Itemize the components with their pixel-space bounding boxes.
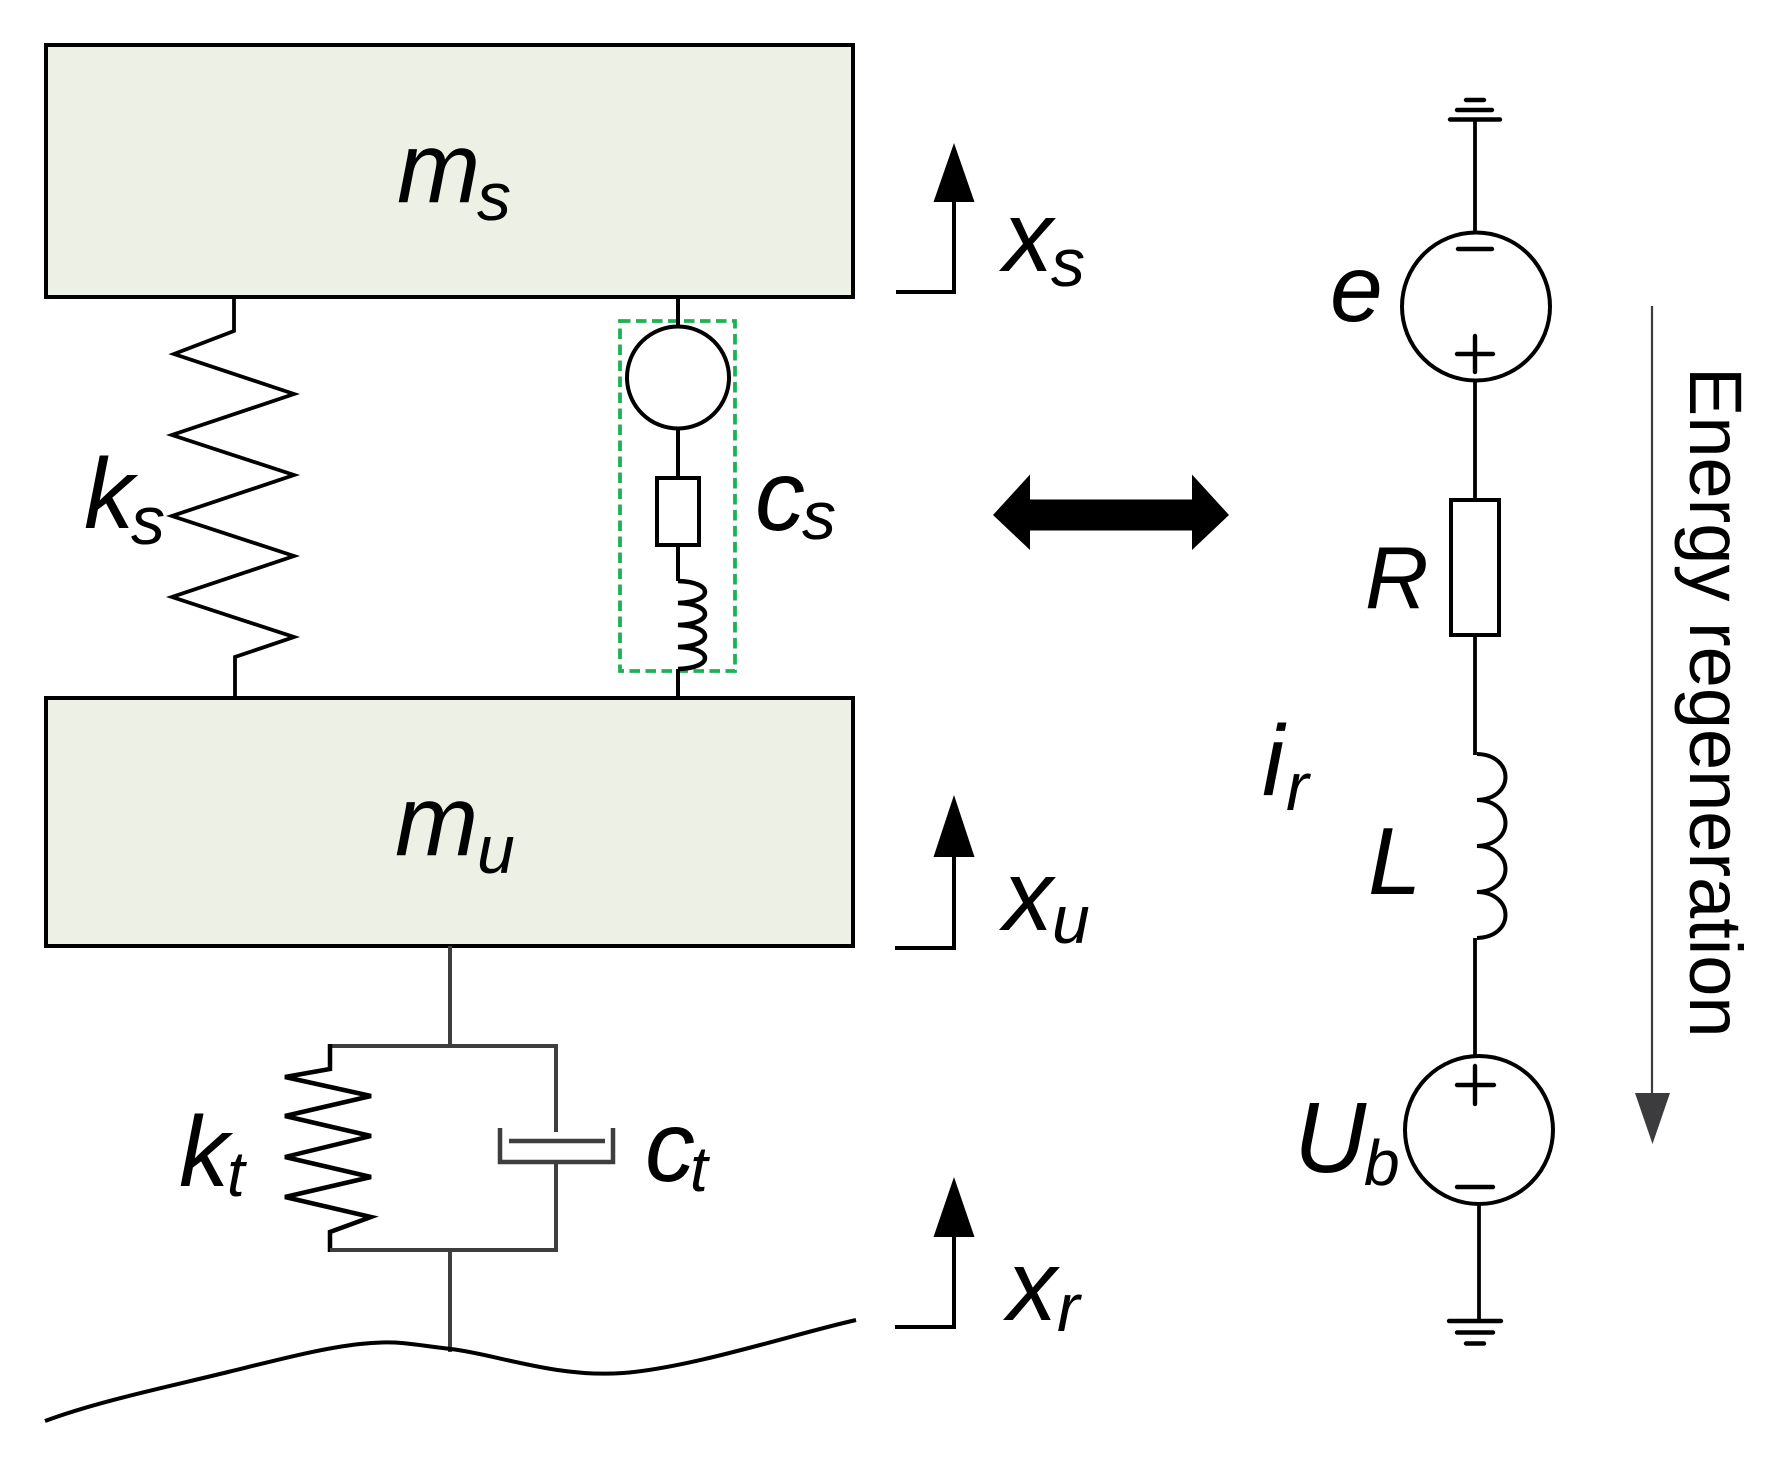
resistor R (1365, 500, 1499, 635)
road surface curve (45, 1320, 856, 1421)
svg-text:s: s (1051, 225, 1085, 301)
voltage source e (1330, 233, 1550, 381)
svg-text:L: L (1368, 808, 1421, 915)
svg-text:s: s (131, 483, 165, 559)
c_s resistor box (657, 478, 699, 545)
battery U_b (1294, 1056, 1553, 1204)
svg-text:s: s (802, 478, 836, 554)
wire bracket to road (448, 1250, 452, 1352)
arrow x_u (895, 795, 1090, 958)
damper c_t cup (500, 1128, 613, 1162)
actuator c_s green dashed box (620, 321, 735, 671)
svg-text:r: r (1057, 1270, 1082, 1346)
svg-text:x: x (999, 181, 1056, 293)
bracket bottom bar (330, 1248, 556, 1252)
svg-text:b: b (1364, 1127, 1400, 1199)
svg-text:c: c (755, 440, 805, 552)
c_s coil (678, 581, 705, 669)
svg-text:t: t (690, 1133, 710, 1205)
c_s mid wire (676, 429, 680, 479)
inductor L (1368, 754, 1506, 938)
energy regeneration arrow (1635, 306, 1670, 1144)
svg-text:c: c (645, 1091, 695, 1203)
svg-text:i: i (1262, 705, 1287, 817)
svg-text:u: u (477, 812, 515, 888)
svg-text:k: k (179, 1096, 234, 1208)
bottom ground (1449, 1321, 1501, 1344)
top ground (1450, 100, 1500, 120)
bracket top bar (330, 1044, 556, 1048)
wire U_b to ground (1477, 1204, 1481, 1321)
wire R to L (1473, 635, 1477, 755)
mass block m_u (46, 698, 853, 946)
arrow x_r (895, 1177, 1082, 1346)
svg-text:e: e (1330, 236, 1383, 342)
mass block m_s (46, 45, 853, 297)
spring k_s (84, 295, 294, 700)
spring k_t (179, 1044, 371, 1252)
c_s lower wire (676, 545, 680, 581)
svg-text:s: s (477, 159, 511, 235)
arrow x_s (896, 143, 1085, 301)
svg-text:t: t (227, 1138, 247, 1210)
svg-text:R: R (1365, 528, 1429, 627)
wire L to U_b (1473, 938, 1477, 1056)
wire m_u to bracket (448, 946, 452, 1046)
equivalence double arrow (993, 475, 1229, 551)
wire e to R (1473, 381, 1477, 501)
c_s top wire (676, 297, 680, 325)
svg-text:x: x (1003, 1230, 1060, 1342)
svg-text:Energy regeneration: Energy regeneration (1674, 367, 1757, 1038)
damper lower rod (554, 1162, 558, 1252)
svg-text:U: U (1294, 1082, 1367, 1194)
c_s bottom wire (676, 669, 680, 700)
wire ground to e (1473, 119, 1477, 233)
svg-text:m: m (397, 112, 480, 224)
svg-text:u: u (1052, 882, 1090, 958)
svg-text:x: x (999, 840, 1056, 952)
damper c_t rod (554, 1044, 558, 1132)
damper c_t piston plate (509, 1139, 605, 1144)
svg-text:r: r (1286, 749, 1311, 825)
c_s motor circle (627, 327, 729, 429)
svg-text:m: m (395, 765, 478, 877)
